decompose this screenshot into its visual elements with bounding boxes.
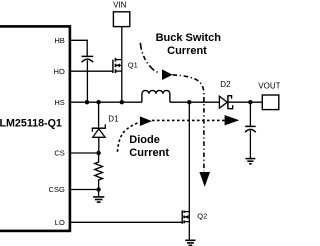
buck switch current path (dash-dot, upper segment) — [140, 43, 158, 73]
diode D1 (Schottky, anode down) — [92, 102, 106, 153]
Q2 body-diode arrow — [184, 215, 188, 219]
svg-text:Q1: Q1 — [128, 60, 138, 69]
svg-text:LM25118-Q1: LM25118-Q1 — [0, 118, 62, 130]
svg-text:D2: D2 — [220, 80, 231, 89]
wire CS pin to D1 anode — [70, 152, 99, 154]
diode D2 (Schottky, output) — [219, 95, 232, 109]
transistor Q2 (N-channel MOSFET) — [182, 210, 189, 223]
svg-text:Current: Current — [167, 45, 207, 57]
junction dot: D1 cathode at HS rail — [96, 100, 100, 104]
junction dot: CS node — [96, 151, 100, 155]
svg-text:CS: CS — [54, 149, 64, 158]
ground (output capacitor) — [246, 159, 256, 164]
diode current arrowhead (mid) — [140, 116, 152, 126]
IC block U1 LM25118-Q1 — [0, 26, 70, 231]
svg-text:Buck Switch: Buck Switch — [156, 32, 222, 44]
wire HS rail (block to inductor) — [70, 101, 142, 103]
wire switch node down to Q2 drain — [188, 102, 190, 240]
bootstrap capacitor C1 — [82, 56, 94, 102]
svg-text:LO: LO — [55, 218, 65, 227]
svg-text:Diode: Diode — [129, 134, 160, 146]
buck switch current arrowhead (down) — [199, 172, 210, 187]
wire HO pin to Q1 gate — [70, 70, 113, 72]
svg-text:D1: D1 — [108, 115, 119, 124]
junction dot: VOUT node — [248, 100, 252, 104]
VIN terminal — [113, 12, 129, 27]
svg-text:Current: Current — [129, 147, 169, 159]
output capacitor C2 — [245, 102, 256, 158]
diode current path (dashed, curved segment) — [117, 122, 139, 151]
VOUT terminal — [262, 95, 279, 110]
svg-text:HB: HB — [54, 36, 64, 45]
svg-text:VIN: VIN — [113, 1, 127, 10]
wire D2 cathode to VOUT terminal — [229, 101, 263, 103]
transistor Q1 (N-channel MOSFET) — [113, 58, 122, 73]
svg-text:Q2: Q2 — [197, 211, 207, 220]
junction dot: Q1 source at HS rail — [120, 100, 124, 104]
diode current arrowhead (end) — [225, 115, 240, 125]
junction dot: switch node to Q2 drain — [187, 100, 191, 104]
Q1 body-diode arrow — [116, 64, 120, 68]
ground (CSG) — [93, 190, 104, 203]
inductor L1 — [142, 90, 170, 102]
junction dot: capacitor to HS rail — [85, 100, 89, 104]
ground (Q2 source) — [185, 240, 195, 245]
svg-text:VOUT: VOUT — [258, 82, 280, 91]
wire CSG pin to resistor bottom — [70, 189, 99, 191]
svg-text:CSG: CSG — [49, 185, 65, 194]
resistor R1 (current sense) — [95, 153, 103, 190]
svg-text:HO: HO — [54, 67, 65, 76]
wire VIN to Q1 drain and Q1 source to HS rail — [121, 27, 123, 103]
wire LO pin to Q2 gate — [70, 221, 182, 223]
junction dot: CSG node — [96, 187, 100, 191]
wire HS rail (inductor to D2 anode) — [170, 101, 220, 103]
svg-text:HS: HS — [54, 98, 64, 107]
buck switch current path (dash-dot, lower segment) — [173, 75, 204, 171]
diode current path (dashed, horizontal segment) — [152, 119, 225, 121]
wire HB pin to bootstrap capacitor — [70, 40, 87, 56]
buck switch current arrowhead (right) — [162, 69, 173, 80]
